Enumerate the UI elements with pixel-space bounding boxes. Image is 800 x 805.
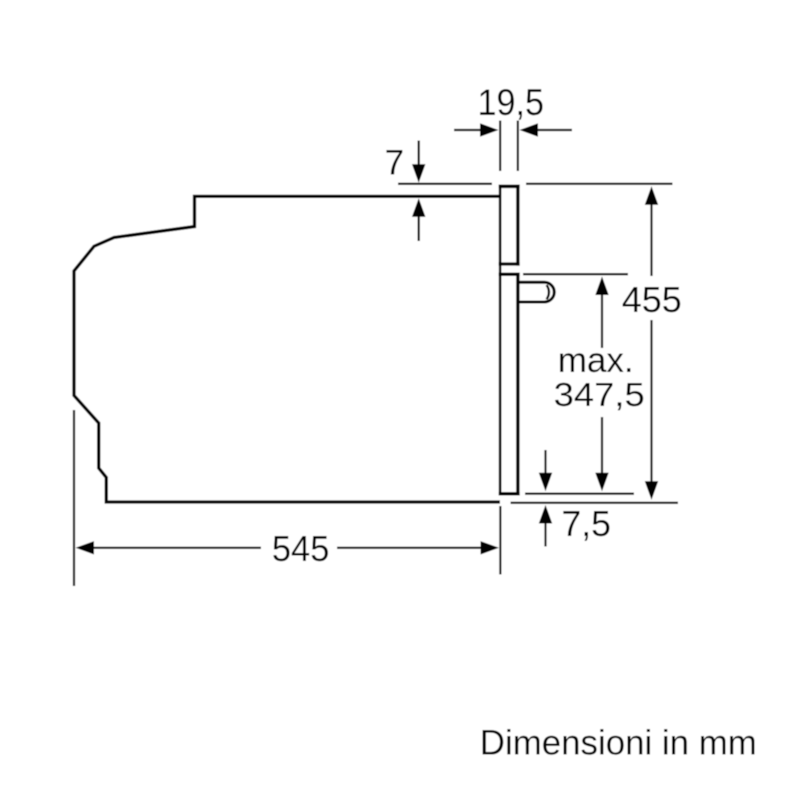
door lower panel bottom edge (499, 492, 520, 496)
oven body outline (74, 196, 500, 502)
extension line door left top (499, 121, 501, 172)
door bottom reference line (525, 493, 634, 495)
545 dim line left with left arrow (76, 541, 95, 554)
545 left extension line (73, 410, 75, 586)
door upper panel left edge (499, 185, 502, 266)
svg-text:7,5: 7,5 (561, 503, 611, 544)
extension line door right top (517, 121, 519, 172)
body bottom reference line (511, 502, 679, 504)
545 dim line right with right arrow (337, 547, 482, 549)
arrow 7,5 up (539, 505, 552, 524)
455 dim line lower with down arrow (650, 320, 652, 482)
347,5 dim line upper with up arrow (595, 277, 608, 296)
door upper panel top edge (499, 185, 520, 189)
door top reference line (398, 183, 492, 185)
347,5 top reference line (523, 273, 628, 275)
door upper panel right edge (516, 185, 519, 266)
545 right extension line (499, 506, 501, 575)
door lower panel left edge (499, 273, 502, 496)
347,5 dim line lower with down arrow (601, 417, 603, 474)
dim line 19,5 right (537, 129, 572, 131)
arrow 7,5 down (544, 450, 546, 474)
arrow 19,5 right (520, 123, 539, 136)
body right face in door gap (499, 262, 502, 276)
door lower panel right edge (516, 273, 519, 496)
latch cap inner arc (547, 285, 549, 299)
svg-text:max.: max. (558, 341, 634, 380)
latch hinge pin (519, 282, 554, 302)
svg-text:347,5: 347,5 (554, 377, 645, 414)
dim line 19,5 left (454, 129, 481, 131)
arrow 7 up (412, 198, 425, 217)
svg-text:19,5: 19,5 (478, 81, 545, 123)
arrow 19,5 left (480, 123, 499, 136)
door lower panel top edge (499, 273, 520, 276)
svg-text:545: 545 (272, 528, 330, 569)
svg-text:Dimensioni in mm: Dimensioni in mm (480, 723, 757, 762)
door upper panel bottom edge (499, 262, 520, 265)
svg-text:7: 7 (385, 144, 404, 183)
455 top reference line (526, 183, 673, 185)
svg-text:455: 455 (622, 279, 682, 320)
arrow 7 down (418, 141, 420, 166)
455 dim line upper with up arrow (645, 186, 658, 205)
